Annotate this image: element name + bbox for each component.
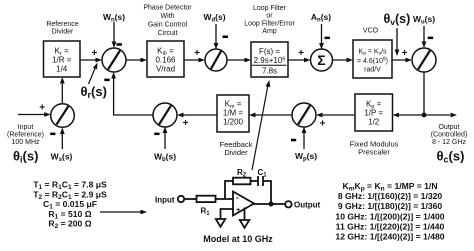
wire: S6 output down to output node bbox=[423, 72, 425, 115]
svg-text:Reference: Reference bbox=[46, 21, 78, 28]
arrowhead into S5 right side bbox=[177, 113, 184, 118]
summer S4 (prescaler noise summing junction) bbox=[292, 103, 316, 127]
arrowhead into Kp right side bbox=[393, 113, 400, 118]
sign minus S6 top bbox=[428, 37, 433, 40]
arrowhead into S1 bottom bbox=[111, 72, 116, 79]
wire: Wu noise input arrow line into S6 bbox=[423, 26, 425, 46]
wire: VCO output to summer S6 bbox=[392, 59, 409, 61]
wire: Wn noise input arrow line into S1 bbox=[113, 22, 115, 46]
noise label Ws(s) bbox=[51, 152, 73, 164]
resistor R1 bbox=[197, 196, 216, 202]
wire: Ws noise input arrow line into S0 bbox=[61, 131, 63, 149]
arrowhead into reference divider bottom bbox=[60, 77, 65, 84]
sign minus S5 bottom bbox=[154, 133, 159, 136]
svg-text:Divider: Divider bbox=[224, 148, 248, 157]
svg-text:1/2: 1/2 bbox=[368, 118, 380, 127]
svg-text:or: or bbox=[266, 13, 273, 20]
noise label Wn(s) bbox=[103, 12, 125, 24]
svg-text:+: + bbox=[320, 119, 326, 130]
ground (op-amp) bbox=[240, 220, 250, 228]
sign minus S0 bottom bbox=[50, 133, 55, 136]
noise label Wd(s) bbox=[203, 12, 225, 24]
svg-text:1/4: 1/4 bbox=[56, 64, 68, 73]
summer S1 (reference phase summing junction) bbox=[102, 48, 126, 72]
node: output junction dot bbox=[422, 113, 427, 118]
svg-text:(Controlled): (Controlled) bbox=[431, 132, 468, 139]
VCO block Ko bbox=[353, 40, 392, 78]
sign plus S0 left bbox=[39, 103, 45, 114]
svg-text:(Reference): (Reference) bbox=[7, 132, 44, 139]
svg-text:F(s) =: F(s) = bbox=[259, 47, 280, 56]
arrowhead Wn into S1 top bbox=[112, 42, 117, 49]
wire: Wb noise input arrow line into S5 bbox=[164, 129, 166, 149]
arrowhead into S1 left bbox=[96, 58, 103, 63]
svg-text:θv(s): θv(s) bbox=[384, 12, 411, 27]
arrowhead Wu into S6 top bbox=[422, 42, 427, 49]
pin label: op-amp inverting input bbox=[236, 193, 239, 202]
terminal: Output bbox=[285, 201, 291, 207]
value label R2 bbox=[237, 168, 247, 179]
svg-text:+: + bbox=[91, 48, 97, 59]
svg-text:+: + bbox=[298, 48, 304, 59]
noise label Wu(s) bbox=[413, 14, 435, 26]
wire: op-amp output to output terminal bbox=[254, 203, 286, 205]
summer S3 (sigma summing junction) bbox=[311, 49, 333, 71]
sign plus S2 left bbox=[194, 48, 200, 59]
svg-text:2.9s+106: 2.9s+106 bbox=[254, 56, 286, 65]
sign plus S6 left (theta-v) bbox=[402, 48, 408, 59]
value label R1 bbox=[200, 207, 210, 218]
svg-text:Gain Control: Gain Control bbox=[148, 22, 188, 29]
svg-text:Σ: Σ bbox=[317, 52, 325, 68]
annotation arrow from op-amp model to F(s) block bbox=[252, 80, 270, 170]
caption: Fixed Modulus Prescaler bbox=[350, 139, 399, 156]
arrowhead theta-v onto wire bbox=[395, 50, 400, 57]
annotation arrow from theta-r(s) to wire bbox=[89, 63, 98, 85]
wire: input to summer S0 bbox=[18, 114, 48, 116]
svg-text:rad/V: rad/V bbox=[364, 67, 381, 74]
wire: non-inverting input to ground bbox=[221, 209, 234, 219]
sign minus S1 top bbox=[117, 43, 122, 46]
svg-text:Circuit: Circuit bbox=[158, 30, 178, 37]
wire: F(s) output to summer S3 bbox=[288, 59, 308, 61]
wire: S0 output up to reference divider bbox=[61, 80, 63, 104]
wire: An noise input arrow line into S3 bbox=[321, 24, 323, 47]
wire: input terminal to R1 bbox=[184, 198, 196, 200]
arrowhead An into S3 top bbox=[319, 43, 324, 50]
label: Output bbox=[294, 201, 321, 210]
svg-text:θc(s): θc(s) bbox=[437, 149, 465, 165]
svg-text:+: + bbox=[236, 205, 241, 214]
node theta-v(s) label bbox=[384, 12, 411, 27]
sign minus S4 bottom bbox=[291, 139, 296, 142]
svg-text:Phase Detector: Phase Detector bbox=[143, 4, 192, 11]
wire: Kp output to summer S4 bbox=[319, 114, 355, 116]
arrowhead into S6 left bbox=[406, 58, 413, 63]
svg-text:Input: Input bbox=[18, 124, 34, 131]
svg-text:V/rad: V/rad bbox=[156, 64, 175, 73]
caption: Phase Detector With Gain Control Circuit bbox=[143, 4, 192, 37]
svg-text:Prescaler: Prescaler bbox=[358, 147, 390, 156]
svg-text:Wn(s): Wn(s) bbox=[103, 12, 125, 24]
value label C1 bbox=[257, 168, 267, 179]
wire: S5 output left and up to S1 minus input bbox=[114, 75, 153, 115]
svg-text:1/R =: 1/R = bbox=[52, 56, 72, 65]
svg-text:12 GHz: 1/[(240)(2)] = 1/480: 12 GHz: 1/[(240)(2)] = 1/480 bbox=[335, 232, 444, 242]
svg-text:Output: Output bbox=[294, 201, 321, 210]
svg-text:VCO: VCO bbox=[363, 28, 379, 35]
sign plus S1 left bbox=[91, 48, 97, 59]
phase detector block Kphi bbox=[147, 41, 184, 77]
svg-text:100 MHz: 100 MHz bbox=[11, 139, 40, 146]
arrowhead into phase detector left bbox=[141, 58, 148, 63]
wire: Wd noise input arrow line into S2 bbox=[215, 24, 217, 47]
svg-text:Wu(s): Wu(s) bbox=[413, 14, 435, 26]
wire: theta-v pick-off arrow line bbox=[396, 28, 398, 52]
wire: S4 output to feedback divider Km bbox=[252, 114, 292, 116]
sign plus S3 left bbox=[298, 48, 304, 59]
noise label Wp(s) bbox=[295, 151, 317, 163]
op-amp U1 bbox=[233, 192, 254, 216]
wire: S1 output to phase detector bbox=[126, 59, 144, 61]
caption: Reference Divider bbox=[46, 21, 78, 36]
arrowhead Wp into S4 bottom bbox=[302, 127, 307, 134]
svg-text:Loop Filter: Loop Filter bbox=[253, 5, 287, 12]
node theta-i(s) label bbox=[13, 149, 38, 165]
summer S6 (VCO noise summing junction) bbox=[412, 48, 436, 72]
svg-text:With: With bbox=[161, 13, 175, 20]
svg-text:Ws(s): Ws(s) bbox=[51, 152, 73, 164]
resistor R2 bbox=[233, 178, 251, 185]
svg-text:0.166: 0.166 bbox=[155, 56, 176, 65]
svg-text:7.8s: 7.8s bbox=[262, 67, 277, 76]
node theta-c(s) label bbox=[437, 149, 465, 165]
svg-text:Output: Output bbox=[438, 124, 459, 131]
arrowhead Wd into S2 top bbox=[214, 43, 219, 50]
svg-text:9 GHz: 1/[(180)(2)] = 1/360: 9 GHz: 1/[(180)(2)] = 1/360 bbox=[338, 201, 443, 211]
wire: feedback tap up from inverting input node bbox=[225, 181, 233, 199]
prescaler block Kp bbox=[355, 94, 393, 131]
wire: phase detector output to summer S2 bbox=[184, 59, 203, 61]
wire: output node to Output arrow right bbox=[424, 114, 450, 116]
wire: S2 output to loop filter F(s) bbox=[227, 59, 248, 61]
wire: Km output to summer S5 bbox=[180, 114, 217, 116]
value label block: T1 T2 C1 R1 R2 bbox=[33, 180, 107, 231]
pin label: op-amp non-inverting input bbox=[236, 205, 241, 214]
sign plus S4 right bbox=[320, 119, 326, 130]
arrowhead Ws into S0 bottom bbox=[60, 128, 65, 135]
wire: R2 to C1 bbox=[251, 180, 259, 182]
arrowhead into S0 left bbox=[44, 112, 51, 117]
svg-text:Wd(s): Wd(s) bbox=[203, 12, 225, 24]
svg-text:Model at 10 GHz: Model at 10 GHz bbox=[203, 234, 273, 244]
wire: C1 down to output node bbox=[263, 181, 271, 204]
arrowhead into F(s) left bbox=[245, 58, 252, 63]
caption: VCO bbox=[363, 28, 379, 35]
arrowhead into S3 left bbox=[304, 58, 311, 63]
svg-text:θi(s): θi(s) bbox=[13, 149, 38, 165]
arrowhead into S4 right side bbox=[316, 113, 323, 118]
reference divider block Kr bbox=[44, 41, 81, 77]
svg-text:-: - bbox=[236, 193, 239, 202]
node theta-r(s) label bbox=[81, 84, 107, 100]
noise label An(s) bbox=[311, 12, 331, 24]
label: Input bbox=[155, 196, 175, 205]
annotation arrow from values to op-amp model bbox=[100, 210, 147, 215]
wire: output node left into prescaler Kp bbox=[396, 114, 424, 116]
svg-text:8 - 12 GHz: 8 - 12 GHz bbox=[432, 139, 466, 146]
svg-text:+: + bbox=[402, 48, 408, 59]
loop filter block F(s) bbox=[251, 42, 288, 77]
caption: Model at 10 GHz bbox=[203, 234, 273, 244]
arrowhead into Km right side bbox=[249, 113, 256, 118]
arrowhead into S2 left bbox=[199, 58, 206, 63]
wire: S3 output to VCO bbox=[333, 59, 351, 61]
ground (non-inverting input) bbox=[216, 219, 226, 227]
capacitor C1 bbox=[258, 176, 263, 186]
svg-text:+: + bbox=[194, 48, 200, 59]
svg-text:1/M =: 1/M = bbox=[223, 109, 244, 118]
svg-text:1/200: 1/200 bbox=[223, 118, 244, 127]
svg-text:10 GHz: 1/[(200)(2)] = 1/400: 10 GHz: 1/[(200)(2)] = 1/400 bbox=[335, 211, 444, 221]
caption: Feedback Divider bbox=[220, 140, 253, 157]
svg-text:8 GHz: 1/[(160)(2)] = 1/320: 8 GHz: 1/[(160)(2)] = 1/320 bbox=[338, 191, 443, 201]
op-amp model circuit bbox=[178, 176, 292, 228]
sign plus S5 right bbox=[183, 118, 189, 129]
svg-text:Input: Input bbox=[155, 196, 175, 205]
wire: R1 to op-amp inverting input bbox=[216, 198, 234, 200]
svg-text:+: + bbox=[183, 118, 189, 129]
svg-text:Amp: Amp bbox=[262, 28, 277, 35]
ratio table block: KmKp lines bbox=[335, 181, 444, 242]
output label: Output (Controlled) 8 - 12 GHz bbox=[431, 124, 468, 146]
caption: Loop Filter or Loop Filter/Error Amp bbox=[244, 5, 295, 35]
feedback divider block Km bbox=[217, 95, 249, 132]
svg-text:Loop Filter/Error: Loop Filter/Error bbox=[244, 20, 295, 27]
arrowhead into VCO left bbox=[347, 58, 354, 63]
svg-text:Divider: Divider bbox=[52, 28, 74, 35]
summer S0 (input reference summing junction) bbox=[51, 104, 75, 128]
input label: Input (Reference) 100 MHz bbox=[7, 124, 44, 146]
summer S2 (phase detector noise summing junction) bbox=[205, 49, 227, 71]
terminal: Input bbox=[178, 196, 184, 202]
arrowhead Wb into S5 bottom bbox=[163, 127, 168, 134]
node: feedback output junction dot bbox=[269, 202, 274, 207]
svg-text:Wb(s): Wb(s) bbox=[154, 152, 176, 164]
svg-text:Wp(s): Wp(s) bbox=[295, 151, 317, 163]
sign minus S1 bottom bbox=[104, 79, 109, 82]
summer S5 (divider noise summing junction) bbox=[153, 103, 177, 127]
svg-text:An(s): An(s) bbox=[311, 12, 331, 24]
wire: Wp noise input arrow line into S4 bbox=[303, 129, 305, 149]
sign minus S2 top bbox=[223, 36, 228, 39]
arrowhead output right bbox=[451, 113, 458, 118]
sign minus S3 top bbox=[325, 37, 330, 40]
svg-text:1/P =: 1/P = bbox=[364, 109, 383, 118]
svg-text:+: + bbox=[39, 103, 45, 114]
noise label Wb(s) bbox=[154, 152, 176, 164]
wire: reference divider output to summer S1 bbox=[80, 59, 99, 61]
wire: op-amp power pin to ground bbox=[244, 208, 246, 221]
svg-text:θr(s): θr(s) bbox=[81, 84, 107, 100]
svg-text:11 GHz: 1/[(220)(2)] = 1/440: 11 GHz: 1/[(220)(2)] = 1/440 bbox=[336, 221, 445, 231]
